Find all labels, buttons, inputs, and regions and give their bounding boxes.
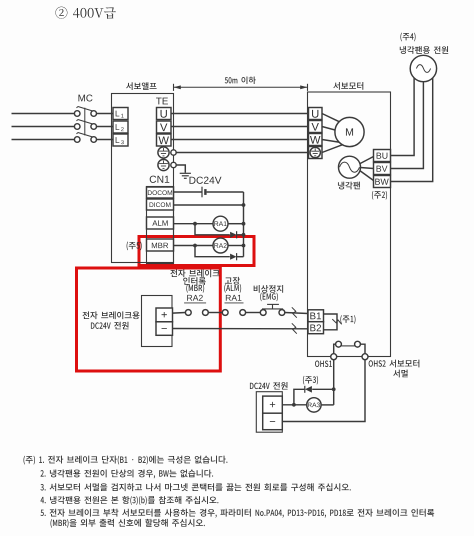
terminal V motor <box>309 121 323 133</box>
terminal V amp <box>157 121 172 133</box>
wire BV to fan power <box>391 82 424 169</box>
wire input power phase 3 <box>12 139 75 141</box>
terminal DICOM <box>147 199 174 210</box>
terminal L3 <box>113 134 128 146</box>
wire plus to RA3 <box>282 404 307 406</box>
junction MBR branch <box>193 244 197 248</box>
terminal BW <box>374 176 391 188</box>
terminal plus bottom supply <box>263 396 283 413</box>
wire RA1 to bus <box>228 223 244 225</box>
wire thermal left to OHS1 <box>334 344 336 354</box>
wire brake coil loop <box>324 314 338 330</box>
contactor MC <box>74 107 96 143</box>
thermal switch contact <box>336 341 361 347</box>
terminal DOCOM <box>147 187 174 198</box>
junction diode1 bus <box>242 233 246 237</box>
dimension label 50m <box>225 76 256 84</box>
terminal minus brake supply <box>156 322 173 336</box>
diode across RA1 <box>230 231 237 238</box>
node OHS1 terminal <box>331 354 337 360</box>
servo amplifier box <box>112 94 174 263</box>
wire U to motor winding <box>322 114 339 122</box>
node PE terminal 2 <box>171 162 176 167</box>
wire BU to fan power <box>391 78 415 156</box>
dimension line 50m <box>174 84 308 91</box>
wire PE amp to motor <box>176 152 308 154</box>
ground terminal symbol 1 on amp <box>158 147 169 158</box>
battery DC24V <box>202 187 205 198</box>
brake power supply box <box>142 296 173 347</box>
contact RA1 designator <box>225 295 244 303</box>
terminal L2 <box>113 121 128 133</box>
wire RA2 contact to RA1 contact <box>208 312 222 314</box>
wire fan to BU <box>360 157 373 164</box>
terminal U amp <box>157 108 172 120</box>
label OHS2 servo motor thermal <box>369 360 420 368</box>
relay coil RA2 <box>213 238 228 253</box>
wire PE to motor frame <box>322 145 342 153</box>
terminal ALM <box>147 217 174 229</box>
wire fan to BV <box>361 168 374 169</box>
wire to earth <box>176 165 185 173</box>
junction RA2 bus <box>242 244 246 248</box>
junction diode3 <box>332 387 336 391</box>
wire thermal right to OHS2 <box>360 344 365 354</box>
servo motor box <box>308 92 391 357</box>
servo amplifier label <box>126 82 157 90</box>
DC24V source label <box>189 177 221 184</box>
wire brake plus to RA2 contact <box>173 312 186 315</box>
wire V to motor winding <box>322 127 335 131</box>
wire W to motor winding <box>322 140 339 143</box>
terminal U motor <box>309 108 323 120</box>
note5 marker <box>127 242 142 251</box>
twisted pair mark B1 wire <box>292 307 297 317</box>
diode across RA2 <box>230 253 237 260</box>
node OHS2 terminal <box>362 354 368 360</box>
ground earth symbol <box>180 173 191 178</box>
wire RA2 diode branch <box>195 246 230 257</box>
wire EMG to B1 <box>285 313 308 314</box>
connector CN1 label <box>150 176 170 183</box>
terminal MBR <box>147 239 174 251</box>
label electromagnetic brake interlock <box>170 269 219 277</box>
terminal BV <box>374 163 391 175</box>
wire W amp to motor <box>171 139 309 141</box>
contactor MC label <box>78 95 92 102</box>
AC source fan power <box>410 55 436 81</box>
junction ALM branch <box>193 222 197 226</box>
note2 marker <box>372 191 387 200</box>
wire RA3 to OHS1 wire <box>321 404 334 406</box>
twisted pair mark note1 <box>332 319 341 324</box>
highlight red box MBR output <box>139 237 254 266</box>
cooling fan label <box>338 182 360 190</box>
note1 marker <box>340 315 355 324</box>
brake power supply label <box>82 311 139 319</box>
terminal L1 <box>113 108 128 120</box>
wire V amp to motor <box>171 126 309 128</box>
wire MC to L2 <box>96 126 113 128</box>
label OHS1 <box>315 361 332 367</box>
cooling fan symbol <box>339 156 361 178</box>
servo motor label <box>333 82 363 90</box>
ground terminal motor <box>309 147 323 159</box>
motor M <box>335 117 364 146</box>
notes text block <box>23 456 434 528</box>
wire MC to L3 <box>96 139 113 141</box>
CN1 terminal strip <box>147 187 174 264</box>
wire input power phase 1 <box>12 113 75 115</box>
wire brake minus to B2 <box>173 328 309 330</box>
label fault ALM <box>225 277 240 285</box>
wire return bus <box>243 192 245 257</box>
wire DICOM to bus <box>174 204 244 206</box>
wire diode1 to bus <box>237 234 244 236</box>
wire battery to bus <box>207 191 244 193</box>
pushbutton EMG normally closed <box>260 304 284 315</box>
junction RA1 bus <box>242 222 246 226</box>
wire MBR to RA2 <box>174 245 214 247</box>
wire diode3 to OHS1 wire <box>312 388 334 390</box>
power supply box bottom <box>256 392 282 433</box>
wire fan to BW <box>360 171 373 181</box>
terminal B2 <box>308 322 324 334</box>
title 400V class heading <box>55 7 115 19</box>
wire RA1 diode branch <box>195 224 230 235</box>
wire diode3 branch <box>294 389 305 405</box>
note4 marker <box>400 33 415 42</box>
relay coil RA3 <box>307 398 321 412</box>
note3 marker <box>303 376 318 385</box>
wire U amp to motor <box>171 113 309 115</box>
highlight red box brake power <box>77 268 221 371</box>
junction DICOM bus <box>242 203 246 207</box>
DC24V power label bottom <box>250 382 288 390</box>
terminal B1 <box>308 310 324 322</box>
junction plus branch <box>292 403 296 407</box>
twisted pair mark B2 wire <box>292 323 297 333</box>
wire RA1 contact to EMG <box>246 312 261 314</box>
fan power supply label <box>400 46 448 54</box>
wire ALM to RA1 <box>174 223 214 225</box>
ground terminal symbol 2 on amp <box>158 159 169 170</box>
wire input power phase 2 <box>12 126 75 128</box>
wire OHS2 down to minus <box>282 360 365 422</box>
terminal BU <box>374 150 391 162</box>
label emergency stop EMG <box>254 285 283 293</box>
terminal minus bottom supply <box>263 413 283 430</box>
wire RA2 to bus <box>228 245 244 247</box>
wire OHS1 down <box>333 360 335 405</box>
terminal plus brake supply <box>156 308 173 322</box>
terminal W amp <box>157 134 172 146</box>
relay coil RA1 <box>213 216 228 231</box>
diode across RA3 <box>305 386 312 393</box>
contact RA2 designator <box>184 295 206 303</box>
contact RA2 normally open <box>185 310 208 316</box>
wire diode2 to bus <box>237 256 244 258</box>
terminal W motor <box>309 134 323 146</box>
contact RA1 normally open <box>222 310 245 316</box>
terminal block TE label <box>156 98 168 105</box>
node PE terminal 1 <box>171 150 176 155</box>
wire DOCOM to battery <box>174 191 202 193</box>
wire BW to fan power <box>391 78 433 182</box>
wire MC to L1 <box>96 113 113 115</box>
